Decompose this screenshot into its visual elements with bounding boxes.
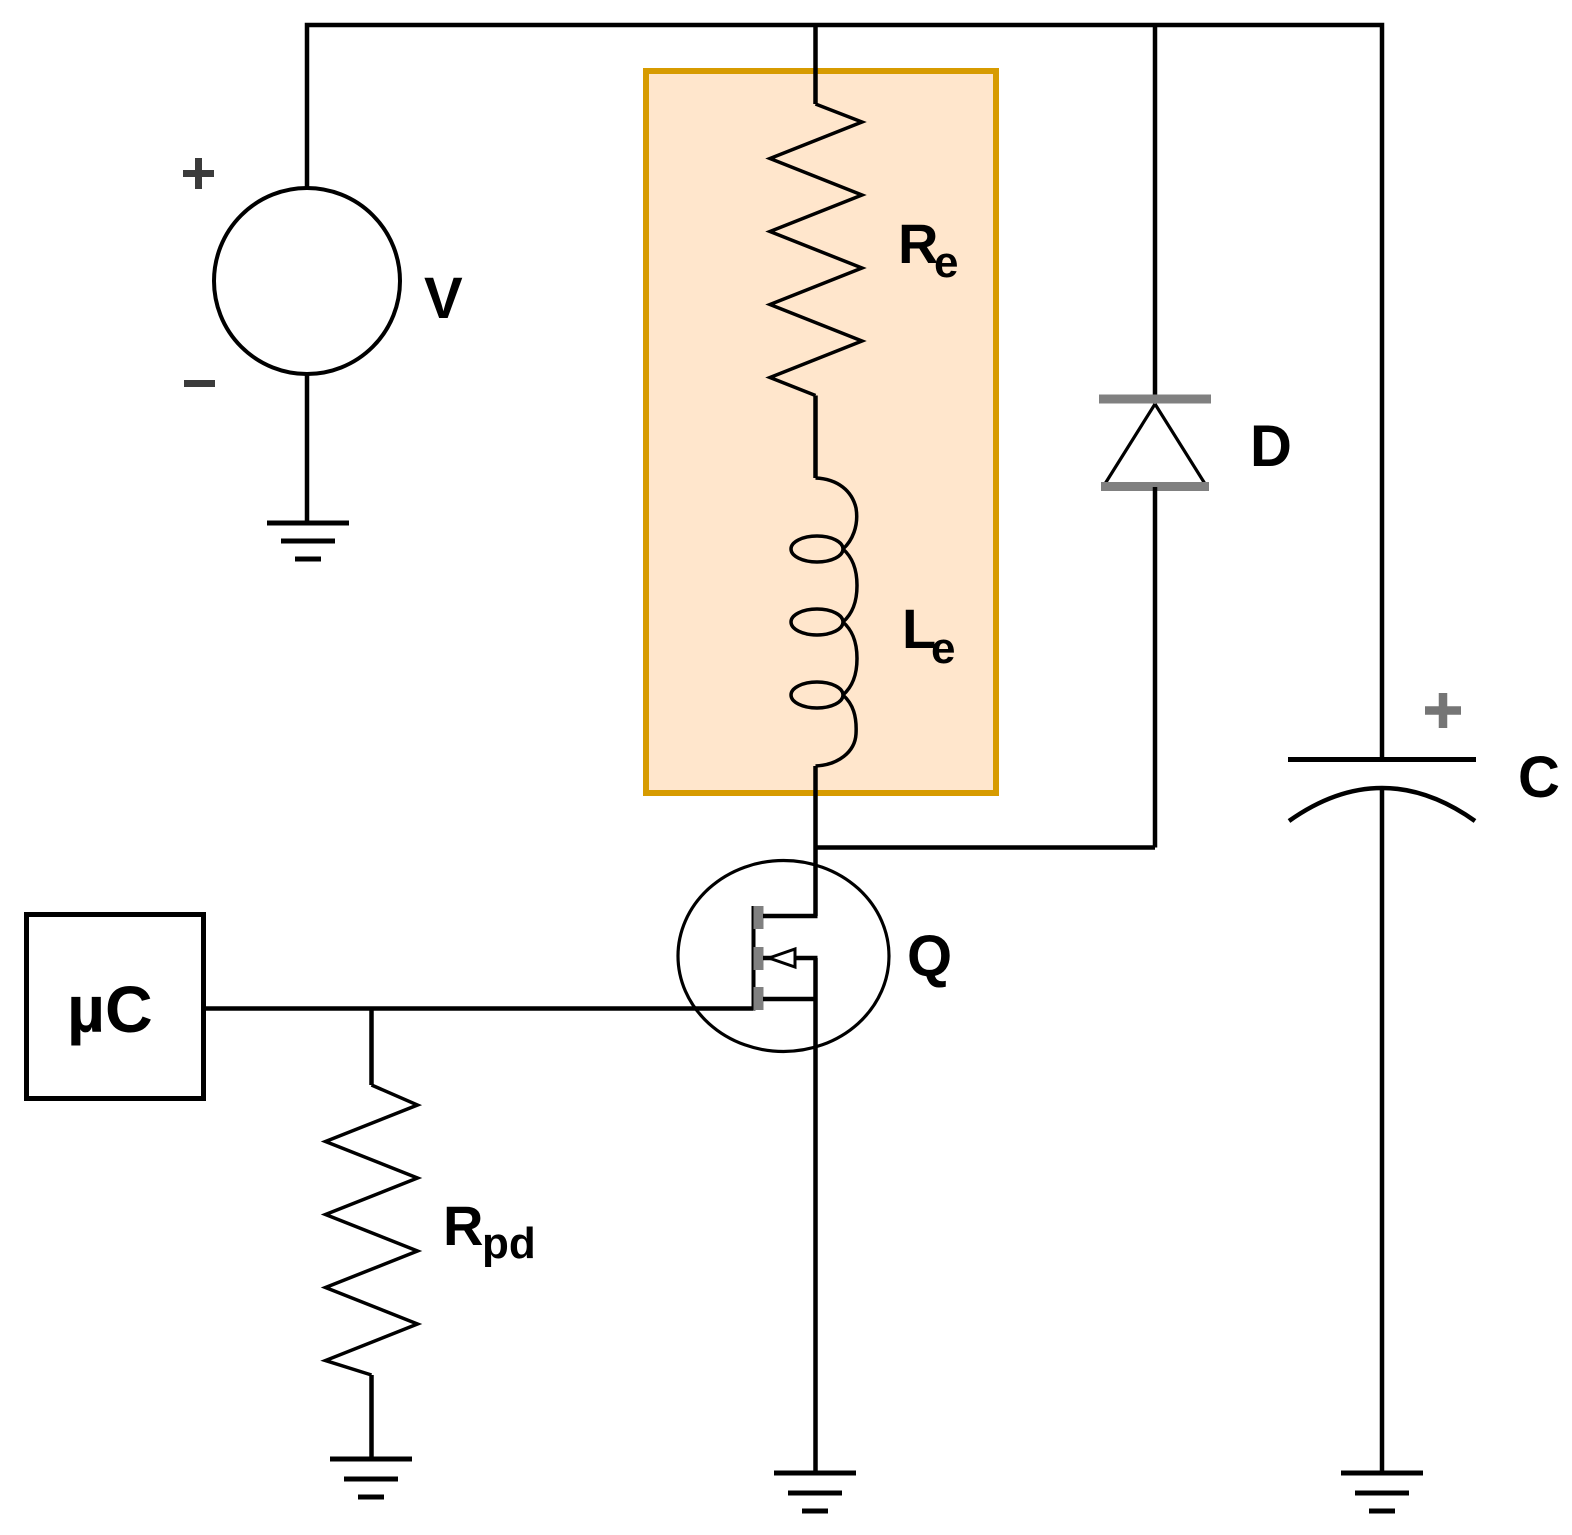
resistor Re: [770, 104, 862, 396]
diode D: [1099, 399, 1211, 487]
wire top rail to resistor: [813, 25, 818, 104]
svg-text:e: e: [931, 624, 955, 673]
svg-text:D: D: [1250, 414, 1292, 479]
ground (below Q): [774, 1473, 856, 1511]
wire top rail from V+ to capacitor branch: [307, 25, 1382, 757]
wire inductor to MOSFET drain: [813, 766, 818, 916]
wire resistor to inductor: [813, 396, 818, 479]
svg-text:R: R: [443, 1194, 483, 1257]
body stub with arrow: [763, 956, 818, 961]
svg-text:Q: Q: [907, 924, 952, 989]
drain stub: [763, 914, 818, 919]
wire capacitor to ground: [1380, 789, 1385, 1473]
wire MOSFET source down to ground: [813, 958, 818, 1473]
gate bar: [752, 906, 756, 1011]
wire top rail to diode: [1153, 25, 1158, 395]
plus sign of C: [1425, 693, 1461, 728]
channel segments: [754, 906, 764, 1010]
wire V minus to ground: [305, 374, 310, 523]
ground (below V): [267, 523, 349, 559]
svg-text:µC: µC: [67, 972, 153, 1046]
svg-text:e: e: [934, 238, 958, 287]
resistor Rpd: [326, 1085, 418, 1375]
svg-text:R: R: [898, 212, 938, 275]
capacitor C: [1288, 760, 1476, 822]
minus sign of V: [184, 380, 215, 387]
svg-text:pd: pd: [482, 1219, 536, 1268]
wire diode to drain node: [1153, 487, 1158, 848]
ground (below C): [1341, 1473, 1423, 1511]
wire gate from uC: [205, 1006, 753, 1011]
source stub: [763, 997, 818, 1002]
plus sign of V: [183, 158, 214, 189]
transistor Q (N-MOSFET): [678, 861, 889, 1052]
inductor Le: [791, 478, 857, 766]
ground (below Rpd): [330, 1459, 412, 1497]
wire drain node to diode bottom: [816, 845, 1156, 850]
wire junction down to Rpd: [369, 1009, 374, 1086]
voltage source V: [214, 188, 400, 374]
svg-text:C: C: [1518, 745, 1560, 810]
wire Rpd to ground: [369, 1375, 374, 1459]
svg-text:V: V: [424, 266, 463, 331]
highlight box (Re + Le): [646, 71, 996, 793]
microcontroller box: [27, 915, 204, 1099]
